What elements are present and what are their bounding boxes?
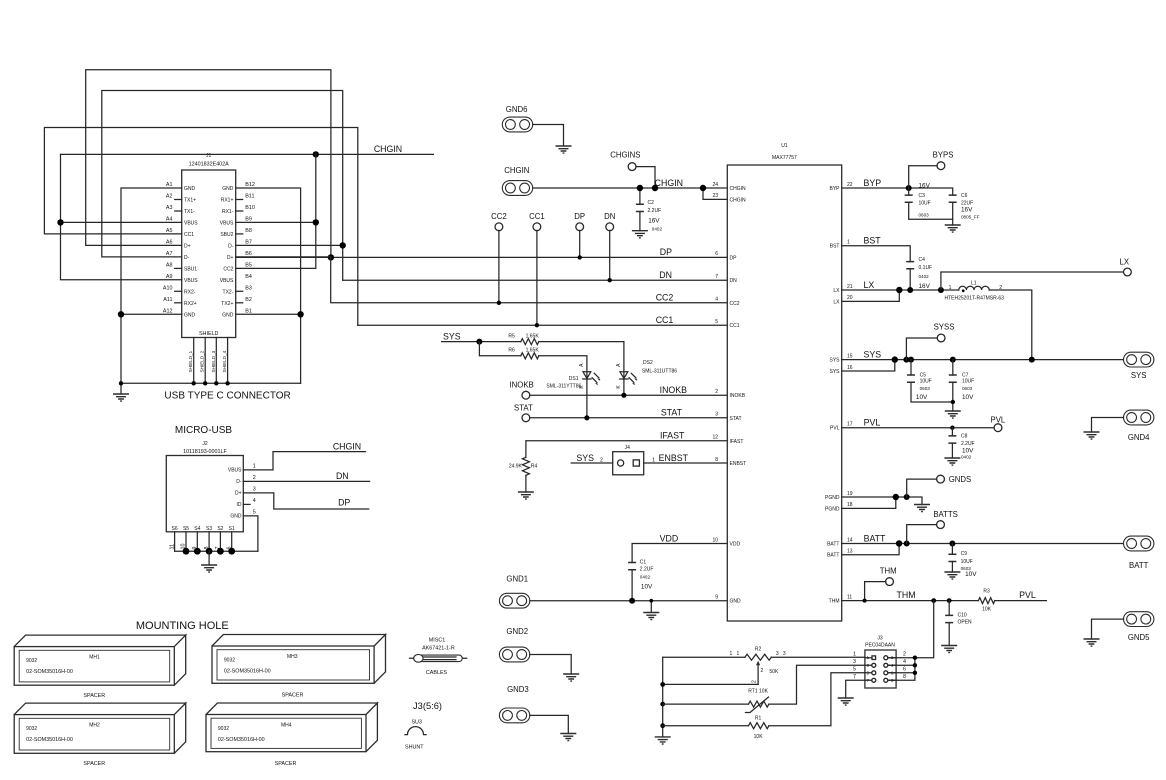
svg-text:S2: S2	[217, 526, 223, 532]
svg-text:D+: D+	[227, 255, 234, 261]
svg-text:1.65K: 1.65K	[526, 333, 540, 339]
wire R2 wiper return	[663, 683, 758, 685]
svg-text:9032: 9032	[26, 726, 37, 732]
svg-text:2: 2	[761, 668, 764, 674]
ground PGND	[914, 505, 930, 512]
svg-text:C8: C8	[961, 434, 968, 440]
ground GND6	[556, 146, 572, 153]
svg-text:SML-311YTT86: SML-311YTT86	[546, 383, 581, 389]
svg-text:10V: 10V	[641, 584, 653, 591]
wire J3 pin7 to ground	[846, 680, 865, 698]
wire D- A7 loop	[102, 91, 343, 281]
svg-text:TX2+: TX2+	[221, 301, 233, 307]
svg-text:ID: ID	[237, 502, 242, 508]
svg-text:PGND: PGND	[825, 506, 840, 512]
svg-text:A11: A11	[163, 297, 172, 303]
node CC2 stub junction	[497, 301, 501, 305]
wire THM line	[842, 600, 979, 602]
svg-text:DN: DN	[604, 212, 615, 221]
wire IFAST line	[526, 441, 727, 458]
svg-text:CC1: CC1	[730, 323, 740, 329]
svg-text:SHIELD: SHIELD	[199, 331, 219, 337]
capacitor C3 10UF	[905, 183, 953, 220]
svg-text:SYS: SYS	[576, 453, 594, 463]
node C10 top	[947, 598, 952, 603]
node C5 top	[908, 357, 914, 363]
svg-text:9032: 9032	[26, 658, 37, 664]
wire VDD line	[632, 544, 727, 563]
node SYS pin16	[892, 356, 898, 362]
svg-text:DP: DP	[660, 247, 672, 257]
svg-text:0.1UF: 0.1UF	[919, 265, 933, 271]
svg-text:1: 1	[737, 651, 740, 657]
svg-text:CC2: CC2	[223, 266, 233, 272]
wire R4 to ground	[525, 475, 527, 492]
svg-text:BATT: BATT	[827, 553, 839, 559]
wire GND5 to ground	[1092, 619, 1124, 639]
svg-text:02-SOM35016H-00: 02-SOM35016H-00	[224, 669, 271, 675]
svg-text:0603: 0603	[919, 212, 930, 217]
ground BYP caps	[945, 225, 961, 232]
node B9 VBUS junction	[313, 219, 319, 225]
svg-text:B3: B3	[245, 285, 252, 291]
potentiometer R2 50K	[730, 647, 786, 685]
svg-text:BST: BST	[864, 236, 882, 246]
wire CC1 A5 outer loop	[44, 128, 357, 326]
wire VBUS A4/A9 to CHGIN	[61, 154, 182, 279]
node SYSS drop	[903, 357, 909, 363]
svg-text:1: 1	[949, 285, 952, 291]
svg-text:2.2UF: 2.2UF	[640, 567, 654, 573]
svg-text:TX2-: TX2-	[223, 289, 234, 295]
wire STAT line	[530, 417, 728, 419]
svg-text:23: 23	[712, 193, 718, 199]
svg-text:PVL: PVL	[830, 426, 840, 432]
wire GND1 line to U1	[530, 600, 728, 602]
svg-text:10UF: 10UF	[920, 379, 932, 385]
ground GND3	[560, 734, 576, 741]
svg-text:B6: B6	[245, 251, 252, 257]
svg-text:C7: C7	[962, 372, 969, 378]
J2 shield bus junctions	[183, 548, 190, 555]
node BYP junction	[906, 185, 912, 191]
wire BYPS stub	[909, 166, 937, 188]
resistor R3 10K	[978, 589, 994, 613]
svg-text:B7: B7	[245, 239, 252, 245]
svg-text:MH3: MH3	[287, 654, 298, 660]
svg-text:D-: D-	[228, 243, 234, 249]
svg-text:B11: B11	[245, 194, 254, 200]
svg-text:S4: S4	[194, 526, 200, 532]
svg-text:CHGIN: CHGIN	[655, 178, 683, 188]
svg-text:B5: B5	[245, 262, 252, 268]
LED DS2 SML-311UTT86	[616, 360, 678, 389]
J1 unconnected pin stubs	[175, 200, 243, 303]
svg-text:2.2UF: 2.2UF	[961, 441, 975, 447]
svg-text:SHIELD_2: SHIELD_2	[200, 350, 205, 372]
svg-text:5: 5	[715, 319, 718, 325]
pad GND5	[1124, 612, 1154, 627]
svg-text:CHGIN: CHGIN	[374, 144, 402, 154]
misc MISC1 AK67421-1-R cable	[410, 638, 467, 677]
pad BATT	[1124, 536, 1154, 551]
wire SYS to J4	[571, 462, 613, 464]
svg-text:VBUS: VBUS	[228, 468, 242, 474]
J2 shield pad labels	[169, 526, 235, 550]
svg-text:SHUNT: SHUNT	[405, 745, 424, 751]
node THM stub	[863, 599, 867, 603]
svg-text:BYP: BYP	[829, 186, 840, 192]
svg-text:R3: R3	[983, 589, 990, 595]
wire VBUS B9/B4 right	[236, 154, 316, 268]
svg-text:VBUS: VBUS	[220, 278, 234, 284]
wire THM to J3 pin2	[915, 601, 934, 658]
svg-text:CHGIN: CHGIN	[730, 197, 747, 203]
wire CC2 testpoint stub	[498, 230, 500, 302]
svg-text:DN: DN	[659, 270, 672, 280]
svg-text:THM: THM	[896, 590, 915, 600]
svg-text:10118193-0001LF: 10118193-0001LF	[183, 449, 227, 455]
svg-text:16V: 16V	[919, 183, 931, 190]
svg-text:LX: LX	[833, 299, 840, 305]
node C2 junction	[637, 185, 643, 191]
svg-text:PVL: PVL	[1019, 590, 1036, 600]
svg-text:SYS: SYS	[443, 331, 461, 341]
wire GND3 to ground	[530, 715, 569, 733]
node GNDS drop	[904, 494, 910, 500]
svg-text:SPACER: SPACER	[275, 761, 297, 767]
node CC1 stub junction	[535, 323, 539, 327]
svg-text:C9: C9	[961, 551, 968, 557]
svg-text:VBUS: VBUS	[184, 278, 198, 284]
svg-text:A6: A6	[166, 239, 173, 245]
capacitor C4 0.1UF	[906, 257, 932, 290]
svg-text:R2: R2	[755, 647, 762, 653]
wire SYSS stub	[906, 338, 937, 360]
J2 ID pin4 stub	[243, 503, 250, 505]
svg-text:A12: A12	[163, 308, 173, 314]
svg-text:2: 2	[715, 389, 718, 395]
svg-text:INOKB: INOKB	[510, 380, 534, 389]
svg-text:A3: A3	[166, 205, 173, 211]
wire LX pin20 jog	[842, 290, 900, 301]
svg-text:SHIELD_3: SHIELD_3	[211, 350, 216, 372]
svg-text:THM: THM	[829, 599, 840, 605]
node C1 GND junction	[629, 598, 635, 604]
wire CC1 testpoint stub	[536, 230, 538, 325]
svg-text:2: 2	[751, 680, 757, 683]
wire J4 to ENBST	[644, 462, 728, 464]
mounting hole MH2	[14, 703, 186, 753]
svg-text:16V: 16V	[648, 217, 660, 224]
ground R4	[518, 492, 534, 499]
svg-text:A4: A4	[166, 216, 173, 222]
svg-text:ENBST: ENBST	[730, 461, 747, 467]
svg-text:16: 16	[847, 365, 853, 371]
svg-text:1: 1	[253, 463, 256, 469]
wire J2 D- pin2 DN	[243, 480, 369, 482]
svg-text:ENBST: ENBST	[659, 453, 689, 463]
svg-text:A1: A1	[166, 182, 173, 188]
svg-text:10V: 10V	[962, 394, 974, 401]
svg-text:21: 21	[847, 284, 853, 290]
node SYS split	[476, 339, 482, 345]
svg-text:22: 22	[847, 182, 853, 188]
svg-text:VDD: VDD	[660, 533, 679, 543]
svg-text:S1: S1	[229, 526, 235, 532]
svg-text:D-: D-	[236, 479, 242, 485]
wire PGND pin18 jog	[842, 497, 896, 508]
resistor R6 1.65K	[508, 348, 539, 359]
svg-text:GND: GND	[222, 186, 234, 192]
svg-text:J2: J2	[202, 441, 208, 447]
svg-text:8: 8	[903, 674, 906, 680]
svg-text:C3: C3	[919, 193, 926, 199]
svg-text:7: 7	[853, 674, 856, 680]
svg-text:D+: D+	[235, 491, 242, 497]
wire R3 to PVL	[995, 600, 1047, 602]
svg-text:1: 1	[853, 651, 856, 657]
svg-text:BYPS: BYPS	[933, 151, 954, 160]
svg-text:5: 5	[853, 667, 856, 673]
J2 pin names and numbers	[228, 463, 256, 519]
wire R5 to DS2	[539, 342, 624, 396]
svg-text:S5: S5	[183, 526, 189, 532]
wire CHGIN pin23 jog	[703, 188, 727, 199]
node wiper bus	[660, 682, 665, 687]
svg-text:A9: A9	[166, 274, 173, 280]
wire SYS pin16 jog	[842, 360, 895, 371]
svg-text:MICRO-USB: MICRO-USB	[175, 425, 233, 436]
pad GND2	[499, 647, 529, 662]
svg-text:0805_FF: 0805_FF	[961, 215, 980, 220]
resistor R5 1.65K	[508, 333, 539, 344]
wire THM testpoint stub	[865, 582, 886, 601]
wire BYP line	[842, 188, 953, 195]
svg-text:RX2+: RX2+	[184, 301, 197, 307]
node C8 top	[950, 426, 954, 430]
wire L1 to SYS	[989, 290, 1032, 360]
capacitor C2	[636, 188, 663, 231]
svg-text:CC1: CC1	[184, 232, 194, 238]
svg-text:HTEH25201T-R47MSR-63: HTEH25201T-R47MSR-63	[945, 295, 1005, 301]
svg-text:24: 24	[712, 182, 718, 188]
svg-text:19: 19	[847, 491, 853, 497]
svg-text:0402: 0402	[919, 274, 930, 279]
svg-text:02-SOM35016H-00: 02-SOM35016H-00	[26, 669, 73, 675]
svg-text:PVL: PVL	[991, 415, 1006, 424]
node C7 top	[950, 357, 956, 363]
wire R6 to DS1	[539, 356, 587, 418]
svg-text:VDD: VDD	[730, 542, 741, 548]
node DS1 on STAT	[584, 415, 589, 420]
svg-text:RX1-: RX1-	[222, 209, 234, 215]
wire PVL line	[842, 427, 995, 429]
svg-text:3: 3	[253, 486, 256, 492]
node DS2 on INOKB	[621, 393, 626, 398]
svg-text:20: 20	[847, 295, 853, 301]
wire B7 D- stub	[236, 244, 343, 246]
svg-text:SPACER: SPACER	[83, 693, 105, 699]
node ground stub	[650, 599, 654, 603]
svg-text:0402: 0402	[652, 226, 663, 231]
svg-text:10K: 10K	[982, 606, 992, 612]
node R1 bus	[660, 723, 665, 728]
svg-text:DP: DP	[338, 498, 350, 508]
wire R2 row	[663, 656, 865, 658]
svg-text:4: 4	[253, 498, 256, 504]
wire ground stub GND line	[650, 601, 652, 613]
LED DS1 SML-311YTT86	[546, 363, 600, 389]
U1 left pin names	[712, 182, 746, 605]
svg-text:J3: J3	[877, 635, 883, 641]
svg-text:D+: D+	[184, 243, 191, 249]
connector J4	[600, 445, 655, 475]
connector J2 micro-usb body	[166, 441, 243, 532]
node CHGINS junction	[652, 185, 658, 191]
svg-text:MISC1: MISC1	[429, 638, 445, 644]
wire SYS left	[442, 341, 521, 343]
svg-text:BATT: BATT	[1129, 561, 1149, 570]
svg-text:GND2: GND2	[506, 627, 528, 636]
svg-text:THM: THM	[880, 566, 897, 575]
svg-text:J4: J4	[625, 445, 631, 451]
capacitor C1	[628, 560, 653, 601]
svg-text:INOKB: INOKB	[730, 393, 746, 399]
svg-text:16V: 16V	[919, 283, 931, 290]
svg-text:GND: GND	[184, 312, 196, 318]
svg-text:MAX77757: MAX77757	[772, 155, 797, 161]
svg-text:10UF: 10UF	[962, 379, 974, 385]
wire PGND line	[842, 497, 922, 505]
node J3 pin2 bus	[913, 656, 917, 660]
svg-text:A5: A5	[166, 228, 173, 234]
wire DP testpoint stub	[579, 230, 581, 257]
pad GND1	[499, 593, 529, 608]
svg-text:CC2: CC2	[730, 301, 740, 307]
svg-text:BYP: BYP	[864, 178, 882, 188]
node DN stub junction	[608, 278, 612, 282]
svg-text:RT1 10K: RT1 10K	[748, 689, 768, 695]
node CHGIN pin23	[700, 185, 706, 191]
svg-text:GNDS: GNDS	[949, 475, 972, 484]
resistor R1 10K	[663, 716, 769, 741]
svg-text:14: 14	[847, 537, 853, 543]
node PGND pin18	[893, 494, 899, 500]
svg-text:3: 3	[715, 412, 718, 418]
wire DN testpoint stub	[609, 230, 611, 280]
node A12 GND junction	[118, 311, 124, 317]
node DP stub junction	[578, 255, 582, 259]
svg-text:B9: B9	[245, 216, 252, 222]
svg-text:SYS: SYS	[864, 349, 882, 359]
wire RT1 to J3 pin3	[769, 665, 865, 704]
svg-text:15: 15	[847, 353, 853, 359]
svg-text:AK67421-1-R: AK67421-1-R	[422, 646, 455, 652]
wire J2 D+ pin3 DP	[243, 493, 368, 509]
svg-text:PVL: PVL	[864, 418, 881, 428]
svg-text:1.65K: 1.65K	[526, 348, 540, 354]
svg-text:U1: U1	[781, 143, 788, 149]
svg-text:C10: C10	[958, 612, 967, 618]
svg-text:10V: 10V	[916, 394, 928, 401]
svg-text:1: 1	[730, 651, 733, 657]
svg-text:02-SOM35016H-00: 02-SOM35016H-00	[26, 737, 73, 743]
svg-text:10V: 10V	[965, 571, 977, 578]
svg-text:DP: DP	[574, 212, 585, 221]
svg-text:0603: 0603	[962, 386, 973, 391]
svg-text:0402: 0402	[961, 454, 972, 459]
svg-text:CC1: CC1	[529, 212, 545, 221]
svg-text:MH2: MH2	[89, 722, 100, 728]
capacitor C7 10UF	[949, 360, 974, 411]
svg-text:D-: D-	[184, 255, 190, 261]
svg-text:B8: B8	[245, 228, 252, 234]
svg-text:4: 4	[715, 297, 718, 303]
svg-text:BST: BST	[830, 244, 840, 250]
capacitor C6 22UF	[949, 193, 980, 225]
svg-text:4: 4	[903, 659, 906, 665]
svg-text:LX: LX	[833, 288, 840, 294]
svg-text:SHIELD_1: SHIELD_1	[188, 350, 193, 372]
node J3 pin6 bus	[913, 671, 917, 675]
svg-text:0402: 0402	[640, 575, 651, 580]
shunt SU3	[405, 720, 426, 751]
svg-text:DS2: DS2	[643, 360, 653, 366]
wire BATTS stub	[907, 525, 937, 544]
svg-text:B12: B12	[245, 182, 255, 188]
svg-text:SYS: SYS	[829, 358, 840, 364]
svg-text:GND: GND	[222, 312, 234, 318]
svg-text:CHGIN: CHGIN	[333, 441, 361, 451]
svg-text:J3(5:6): J3(5:6)	[413, 701, 442, 711]
wire CHGIN top net	[61, 153, 434, 155]
node C9 top	[949, 541, 955, 547]
svg-text:RX2-: RX2-	[184, 289, 196, 295]
svg-text:B4: B4	[245, 274, 252, 280]
ground SYS caps	[945, 411, 961, 418]
svg-text:5: 5	[253, 509, 256, 515]
svg-text:2.2UF: 2.2UF	[648, 208, 662, 214]
svg-text:3: 3	[853, 659, 856, 665]
svg-text:CHGIN: CHGIN	[730, 186, 747, 192]
wire R1 to J3 pin5	[769, 673, 865, 726]
svg-text:10UF: 10UF	[961, 559, 973, 565]
connector J1 USB Type C body	[182, 153, 236, 337]
pad SYS	[1124, 352, 1154, 367]
wire GND4 to ground	[1092, 418, 1124, 433]
resistor R4 24.9K	[509, 457, 538, 475]
wire BATT pin13 jog	[842, 544, 899, 555]
capacitor C5 10UF	[907, 360, 953, 402]
capacitor C8 2.2UF	[948, 428, 974, 460]
svg-text:VBUS: VBUS	[184, 220, 198, 226]
svg-text:B1: B1	[245, 308, 252, 314]
svg-text:GND1: GND1	[506, 574, 528, 583]
node B7 D- junction	[340, 242, 346, 248]
wire GNDS stub	[907, 479, 937, 497]
svg-text:CHGINS: CHGINS	[610, 150, 640, 159]
thermistor RT1 10K	[663, 689, 769, 713]
svg-text:USB TYPE C CONNECTOR: USB TYPE C CONNECTOR	[164, 391, 290, 402]
node DP junction	[328, 254, 334, 260]
wire B12 GND to B1 and shield bus	[236, 188, 301, 383]
J3 right pin stubs to bus	[888, 658, 915, 681]
svg-text:SHIELD_4: SHIELD_4	[222, 350, 227, 372]
svg-text:RX1+: RX1+	[221, 198, 234, 204]
ground GND line	[643, 613, 659, 620]
ground C10	[941, 646, 957, 653]
